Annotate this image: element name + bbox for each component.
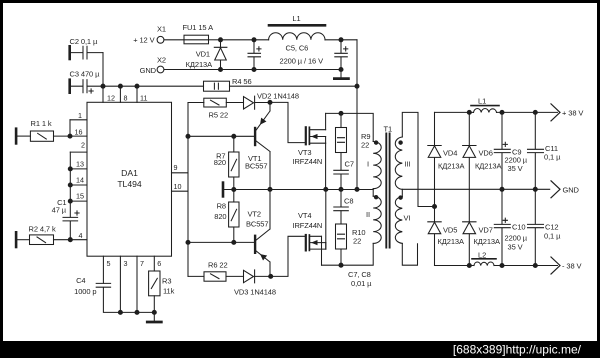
svg-text:III: III bbox=[405, 160, 411, 169]
resistor R7 bbox=[229, 136, 239, 189]
wire -38V rail bbox=[435, 265, 558, 267]
svg-text:X1: X1 bbox=[157, 25, 166, 34]
junction VT1-VT2 collectors bbox=[268, 187, 272, 191]
svg-text:7: 7 bbox=[140, 259, 144, 268]
wire pin1-pin16 tie bbox=[69, 120, 71, 136]
junction VD1 bottom bbox=[219, 68, 223, 72]
wire winding III top to rectifier bbox=[402, 112, 434, 206]
junction pin13 bbox=[68, 167, 72, 171]
svg-text:13: 13 bbox=[76, 160, 84, 169]
junction VT3 gate node bbox=[268, 100, 272, 104]
junction VD7 bottom bbox=[467, 264, 471, 268]
junction pin7 gnd bbox=[135, 310, 139, 314]
svg-text:16: 16 bbox=[75, 128, 83, 137]
wire C4 to gnd bus bbox=[103, 287, 120, 312]
svg-text:КД213А: КД213А bbox=[438, 237, 464, 246]
wire primary bottom line bbox=[322, 243, 374, 265]
svg-text:10: 10 bbox=[174, 182, 182, 191]
diode VD5 bbox=[428, 207, 441, 266]
node winding II phase dot bbox=[374, 196, 377, 199]
svg-text:R5 22: R5 22 bbox=[209, 111, 229, 120]
svg-text:VT4: VT4 bbox=[298, 211, 311, 220]
junction C6 bottom bbox=[339, 68, 343, 72]
ground under C6 bbox=[334, 70, 348, 79]
resistor R2 bbox=[17, 235, 70, 245]
svg-text:КД213А: КД213А bbox=[438, 162, 464, 171]
svg-text:C7, C8: C7, C8 bbox=[348, 270, 371, 279]
svg-text:R8: R8 bbox=[217, 202, 226, 211]
resistor R6 bbox=[188, 272, 244, 281]
junction pin12 stub bbox=[101, 84, 105, 88]
resistor R1 bbox=[17, 131, 70, 141]
svg-text:VD5: VD5 bbox=[443, 226, 457, 235]
ground bar C3 bbox=[68, 80, 71, 93]
svg-text:DA1: DA1 bbox=[121, 168, 138, 178]
node -38V arrow bbox=[551, 257, 560, 274]
wire primary top line bbox=[326, 113, 374, 141]
junction C5 top bbox=[252, 38, 256, 42]
svg-text:GND: GND bbox=[140, 66, 157, 75]
wire VT3 source bbox=[325, 143, 327, 189]
junction R3 gnd bbox=[152, 310, 156, 314]
svg-text:12: 12 bbox=[107, 94, 115, 103]
svg-text:6: 6 bbox=[157, 259, 161, 268]
svg-text:15: 15 bbox=[76, 192, 84, 201]
svg-text:L1: L1 bbox=[478, 97, 486, 106]
op-amp U1 IC DA1 TL494 body bbox=[87, 102, 172, 256]
wire VT4 drain bbox=[321, 236, 323, 265]
wire pin 15 bbox=[70, 200, 87, 202]
svg-text:[688x389]http://upic.me/: [688x389]http://upic.me/ bbox=[453, 343, 582, 357]
junction C11 top bbox=[533, 110, 537, 114]
diode VD6 bbox=[463, 112, 476, 221]
junction x357 rail bbox=[355, 187, 359, 191]
junction pin15 bbox=[68, 199, 72, 203]
svg-text:35 V: 35 V bbox=[508, 243, 523, 252]
wire pin 2 bbox=[70, 151, 87, 153]
svg-text:R6 22: R6 22 bbox=[208, 261, 228, 270]
junction C6 top bbox=[339, 38, 343, 42]
svg-text:L1: L1 bbox=[292, 14, 300, 23]
ground bar R2 bbox=[15, 232, 18, 247]
svg-text:5: 5 bbox=[107, 259, 111, 268]
wire IC supply bus bbox=[87, 85, 204, 87]
junction C7-C8 bbox=[339, 187, 343, 191]
svg-text:VT2: VT2 bbox=[248, 210, 261, 219]
svg-text:+ 38 V: + 38 V bbox=[562, 109, 583, 118]
wire pin 5 bbox=[102, 256, 104, 283]
capacitor C9 bbox=[494, 112, 510, 189]
svg-text:4: 4 bbox=[79, 231, 83, 240]
ground bbox=[147, 312, 161, 322]
wire pin11 bbox=[136, 86, 138, 102]
inductor L1 bbox=[269, 25, 325, 40]
svg-text:1000 p: 1000 p bbox=[74, 287, 96, 296]
junction R7-R8 bbox=[232, 188, 236, 192]
ground bar R1 bbox=[15, 129, 18, 144]
svg-text:VT3: VT3 bbox=[298, 148, 311, 157]
wire FU1 to VD1 node bbox=[209, 39, 221, 41]
svg-text:X2: X2 bbox=[157, 56, 166, 65]
svg-text:2200 µ / 16 V: 2200 µ / 16 V bbox=[280, 57, 324, 66]
svg-text:+ 12 V: + 12 V bbox=[133, 36, 154, 45]
wire VT4 source bbox=[325, 189, 327, 249]
svg-text:35 V: 35 V bbox=[508, 164, 523, 173]
svg-text:VD3 1N4148: VD3 1N4148 bbox=[234, 288, 276, 297]
wire secondary center to GND rail bbox=[401, 189, 403, 196]
wire VT1 base bbox=[188, 135, 254, 137]
wire +38V rail bbox=[435, 111, 558, 113]
junction VD1 top bbox=[219, 38, 223, 42]
junction C9 top bbox=[500, 110, 504, 114]
svg-text:820: 820 bbox=[214, 158, 226, 167]
svg-text:C12: C12 bbox=[545, 223, 558, 232]
svg-text:GND: GND bbox=[563, 186, 580, 195]
svg-text:0,1 µ: 0,1 µ bbox=[544, 232, 561, 241]
junction VT3-VT4 sources bbox=[324, 187, 328, 191]
svg-text:2200 µ: 2200 µ bbox=[505, 234, 528, 243]
junction pin14 bbox=[68, 183, 72, 187]
svg-text:IRFZ44N: IRFZ44N bbox=[293, 157, 323, 166]
capacitor C3 bbox=[71, 80, 93, 93]
junction VT2 base line bbox=[186, 240, 190, 244]
node winding III phase dot bbox=[399, 141, 402, 144]
resistor R4 bbox=[204, 81, 230, 91]
wire pin 16 bbox=[70, 135, 87, 137]
svg-text:820: 820 bbox=[214, 212, 226, 221]
fuse FU1 bbox=[184, 35, 209, 44]
wire VT2 base bbox=[188, 241, 254, 243]
svg-text:BC557: BC557 bbox=[245, 162, 267, 171]
diode VD1 bbox=[214, 40, 227, 70]
svg-text:C3 470 µ: C3 470 µ bbox=[70, 70, 101, 79]
svg-text:I: I bbox=[367, 160, 369, 169]
capacitor C5 bbox=[248, 40, 261, 70]
node winding I phase dot bbox=[374, 141, 377, 144]
svg-text:8: 8 bbox=[124, 94, 128, 103]
wire gate VT3 bbox=[270, 102, 305, 142]
svg-text:R3: R3 bbox=[162, 277, 171, 286]
svg-text:BC557: BC557 bbox=[246, 220, 268, 229]
svg-text:VD2 1N4148: VD2 1N4148 bbox=[257, 92, 299, 101]
resistor R5 bbox=[188, 98, 244, 107]
svg-text:3: 3 bbox=[124, 259, 128, 268]
svg-text:C2 0,1 µ: C2 0,1 µ bbox=[70, 37, 98, 46]
svg-text:22: 22 bbox=[361, 141, 369, 150]
wire +12V rail top bbox=[221, 39, 269, 41]
svg-text:VD4: VD4 bbox=[443, 149, 457, 158]
wire pin 4 bbox=[70, 239, 87, 241]
capacitor C12 bbox=[528, 189, 544, 265]
wire pin 14 bbox=[70, 184, 87, 186]
wire pin 7 bbox=[136, 256, 138, 312]
svg-text:VI: VI bbox=[404, 214, 411, 223]
svg-text:14: 14 bbox=[76, 176, 84, 185]
svg-text:T1: T1 bbox=[384, 125, 393, 134]
transformer T1 winding VI bbox=[395, 197, 402, 244]
svg-text:R4 56: R4 56 bbox=[232, 77, 252, 86]
svg-text:VD7: VD7 bbox=[479, 226, 493, 235]
svg-text:2: 2 bbox=[81, 141, 85, 150]
capacitor C1 bbox=[63, 211, 79, 240]
wire R4 to x357 bbox=[230, 85, 358, 87]
svg-text:47 µ: 47 µ bbox=[52, 206, 67, 215]
junction pin4 node bbox=[68, 238, 72, 242]
capacitor C10 bbox=[494, 189, 510, 265]
wire winding VI bottom loop bbox=[402, 243, 417, 265]
wire driver bus x188 bbox=[187, 103, 189, 277]
wire gate VT4 bbox=[271, 236, 305, 276]
capacitor C11 bbox=[528, 112, 544, 189]
transformer T1 winding III bbox=[395, 137, 402, 189]
junction pin8 stub bbox=[118, 84, 122, 88]
diode VD2 bbox=[244, 96, 271, 109]
node GND arrow bbox=[551, 181, 560, 198]
transistor Q3 VT3 MOSFET bbox=[306, 127, 326, 144]
junction pin3 gnd bbox=[118, 310, 122, 314]
wire center rail bbox=[224, 189, 373, 191]
terminal X2 bbox=[157, 66, 164, 73]
junction R10 bottom bbox=[339, 263, 343, 267]
junction C12 bottom bbox=[533, 264, 537, 268]
junction C11 bottom bbox=[533, 187, 537, 191]
wire +12V down feed x357 bbox=[356, 40, 358, 190]
junction C9 bottom bbox=[500, 187, 504, 191]
svg-text:КД213А: КД213А bbox=[475, 162, 501, 171]
capacitor C6 bbox=[335, 40, 348, 70]
svg-text:22: 22 bbox=[353, 237, 361, 246]
transistor Q2 VT2 bbox=[255, 189, 270, 276]
transformer T1 winding II bbox=[373, 196, 381, 243]
junction VT4 gate node bbox=[269, 274, 273, 278]
svg-text:C5, C6: C5, C6 bbox=[286, 44, 309, 53]
svg-text:КД213А: КД213А bbox=[474, 237, 500, 246]
svg-text:1: 1 bbox=[78, 111, 82, 120]
svg-text:11: 11 bbox=[140, 94, 147, 103]
svg-text:0,1 µ: 0,1 µ bbox=[544, 153, 561, 162]
diode VD4 bbox=[428, 112, 441, 206]
node winding VI phase dot bbox=[399, 196, 402, 199]
capacitor C4 bbox=[96, 283, 110, 287]
wire pin 1 bbox=[70, 119, 87, 121]
wire pin8 bbox=[119, 86, 121, 102]
capacitor C7 bbox=[334, 170, 349, 189]
svg-text:C10: C10 bbox=[512, 223, 525, 232]
terminal X1 bbox=[157, 36, 164, 43]
junction VT1 base line bbox=[186, 134, 190, 138]
wire L1 to C6 bbox=[325, 39, 357, 41]
resistor R8 bbox=[229, 190, 239, 243]
svg-text:КД213А: КД213А bbox=[186, 60, 212, 69]
wire GND input bbox=[164, 69, 341, 71]
svg-text:R1 1 k: R1 1 k bbox=[31, 119, 52, 128]
svg-text:VD6: VD6 bbox=[479, 149, 493, 158]
wire +12V input bbox=[164, 39, 184, 41]
capacitor C8 bbox=[334, 189, 349, 224]
wire GND rail secondary bbox=[402, 188, 549, 190]
wire pin 9 bbox=[172, 172, 189, 174]
svg-text:TL494: TL494 bbox=[117, 179, 142, 189]
junction R7 top bbox=[232, 134, 236, 138]
junction VD6 top bbox=[467, 110, 471, 114]
junction rectifier node A bbox=[433, 205, 437, 209]
transistor Q4 VT4 MOSFET bbox=[306, 235, 326, 250]
junction x357 on R4 bus bbox=[355, 84, 359, 88]
wire pin 3 bbox=[119, 256, 121, 312]
wire VT3 drain bbox=[325, 113, 327, 129]
svg-text:C4: C4 bbox=[76, 276, 85, 285]
wire primary center bbox=[372, 189, 374, 197]
wire pin 6 bbox=[153, 256, 155, 271]
transformer T1 winding I bbox=[373, 142, 381, 189]
svg-text:L2: L2 bbox=[478, 251, 486, 260]
transistor Q1 VT1 bbox=[255, 102, 270, 189]
svg-text:FU1 15 A: FU1 15 A bbox=[183, 23, 214, 32]
junction R1 node bbox=[68, 134, 72, 138]
resistor R3 bbox=[149, 271, 160, 312]
svg-text:IRFZ44N: IRFZ44N bbox=[293, 221, 323, 230]
svg-text:9: 9 bbox=[174, 163, 178, 172]
wire gnd bus bottom bbox=[120, 311, 154, 313]
ground bar C2 bbox=[68, 46, 71, 59]
svg-text:II: II bbox=[366, 210, 370, 219]
svg-text:C7: C7 bbox=[345, 160, 354, 169]
capacitor C2 bbox=[71, 46, 103, 59]
inductor L2 output choke minus bbox=[472, 259, 496, 266]
svg-text:VD1: VD1 bbox=[196, 50, 210, 59]
diode VD3 bbox=[244, 270, 271, 283]
watermark bar bbox=[0, 341, 600, 358]
junction R9 top bbox=[339, 111, 343, 115]
svg-text:11k: 11k bbox=[163, 287, 175, 296]
wire pin 10 bbox=[172, 190, 189, 192]
resistor R10 bbox=[336, 224, 347, 265]
junction pin11 stub bbox=[135, 84, 139, 88]
svg-text:0,01 µ: 0,01 µ bbox=[351, 279, 372, 288]
node +38V arrow bbox=[551, 104, 560, 121]
resistor R9 bbox=[336, 113, 347, 170]
junction C10 bottom bbox=[500, 264, 504, 268]
svg-text:C8: C8 bbox=[344, 197, 353, 206]
junction C5 bottom bbox=[252, 68, 256, 72]
svg-text:R2 4,7 k: R2 4,7 k bbox=[29, 225, 56, 234]
inductor L3 output choke plus bbox=[471, 106, 499, 113]
wire pins 2-13-14-15 tie bbox=[69, 152, 71, 217]
svg-text:- 38 V: - 38 V bbox=[562, 262, 582, 271]
junction R8 bottom bbox=[232, 240, 236, 244]
transformer T1 core bbox=[386, 134, 389, 248]
wire C2 to bus bbox=[102, 53, 104, 87]
ground bar driver rail bbox=[222, 183, 225, 197]
wire pin12 bbox=[102, 86, 104, 102]
wire pin 13 bbox=[70, 168, 87, 170]
diode VD7 bbox=[463, 222, 476, 266]
